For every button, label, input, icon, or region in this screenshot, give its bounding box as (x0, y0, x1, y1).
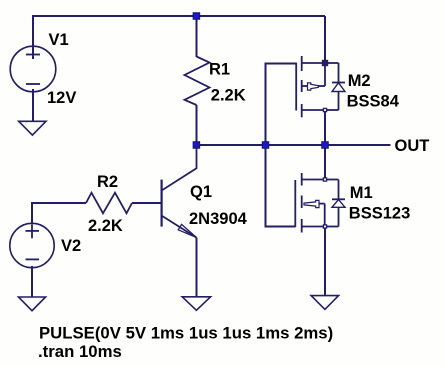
svg-text:2.2K: 2.2K (211, 86, 246, 104)
svg-text:M1: M1 (350, 184, 373, 202)
M1 bulk arrow (304, 200, 319, 207)
svg-text:2.2K: 2.2K (88, 217, 123, 235)
svg-text:Q1: Q1 (190, 183, 212, 201)
wire R1 bottom (196, 105, 198, 145)
wire mid rail to OUT (197, 144, 391, 146)
transistor Q1 (162, 145, 197, 238)
voltage source V2 (10, 223, 54, 267)
M1 source pin square (323, 225, 326, 228)
junction at top rail (193, 13, 200, 20)
M2 bulk arrow (308, 83, 319, 90)
M1 drain pin square (323, 178, 326, 181)
svg-text:BSS123: BSS123 (349, 205, 410, 223)
M1 body diode (338, 180, 340, 200)
voltage source V1 (10, 46, 56, 92)
wire Q1 emitter to ground (196, 238, 198, 298)
M2 body diode (338, 63, 340, 83)
wire top rail (33, 15, 325, 17)
M2 source pin square (323, 108, 326, 111)
ground (V2) (19, 297, 46, 311)
wire V2 bottom to ground (31, 266, 33, 297)
svg-text:R1: R1 (209, 61, 230, 79)
svg-text:M2: M2 (348, 72, 371, 90)
svg-text:OUT: OUT (395, 137, 430, 155)
svg-text:V2: V2 (61, 237, 81, 255)
resistor R2 (86, 193, 132, 214)
wire R1 top (196, 16, 198, 57)
svg-text:.tran 10ms: .tran 10ms (38, 342, 122, 361)
wire V1 bottom to ground (32, 89, 34, 122)
wire M1 source to ground (324, 227, 326, 296)
wire M2 drain to rail (324, 16, 326, 63)
ground (M1 source) (311, 296, 339, 310)
wire M2 source to OUT node (324, 110, 326, 145)
wire M1 gate (266, 145, 296, 227)
MOSFET M1 (295, 173, 345, 233)
ground (Q1 emitter) (182, 297, 210, 311)
wire M1 drain to OUT node (324, 145, 326, 180)
junction at OUT node (322, 142, 329, 149)
wire V2 to R2 (32, 203, 86, 224)
junction at gates node (262, 142, 269, 149)
svg-text:R2: R2 (97, 173, 118, 191)
svg-text:2N3904: 2N3904 (189, 210, 248, 228)
wire M2 gate (266, 64, 297, 146)
svg-text:V1: V1 (49, 31, 69, 49)
MOSFET M2 (296, 56, 345, 117)
svg-text:BSS84: BSS84 (347, 92, 400, 110)
svg-text:12V: 12V (47, 89, 76, 107)
wire V1 to rail (32, 15, 34, 59)
M2 drain junction dot (322, 60, 328, 66)
svg-text:PULSE(0V 5V 1ms 1us 1us 1ms 2m: PULSE(0V 5V 1ms 1us 1us 1ms 2ms) (39, 323, 333, 342)
wire R2 to Q1 base (132, 202, 161, 204)
ground (V1) (19, 121, 46, 135)
junction at collector node (193, 142, 200, 149)
resistor R1 (185, 57, 210, 106)
